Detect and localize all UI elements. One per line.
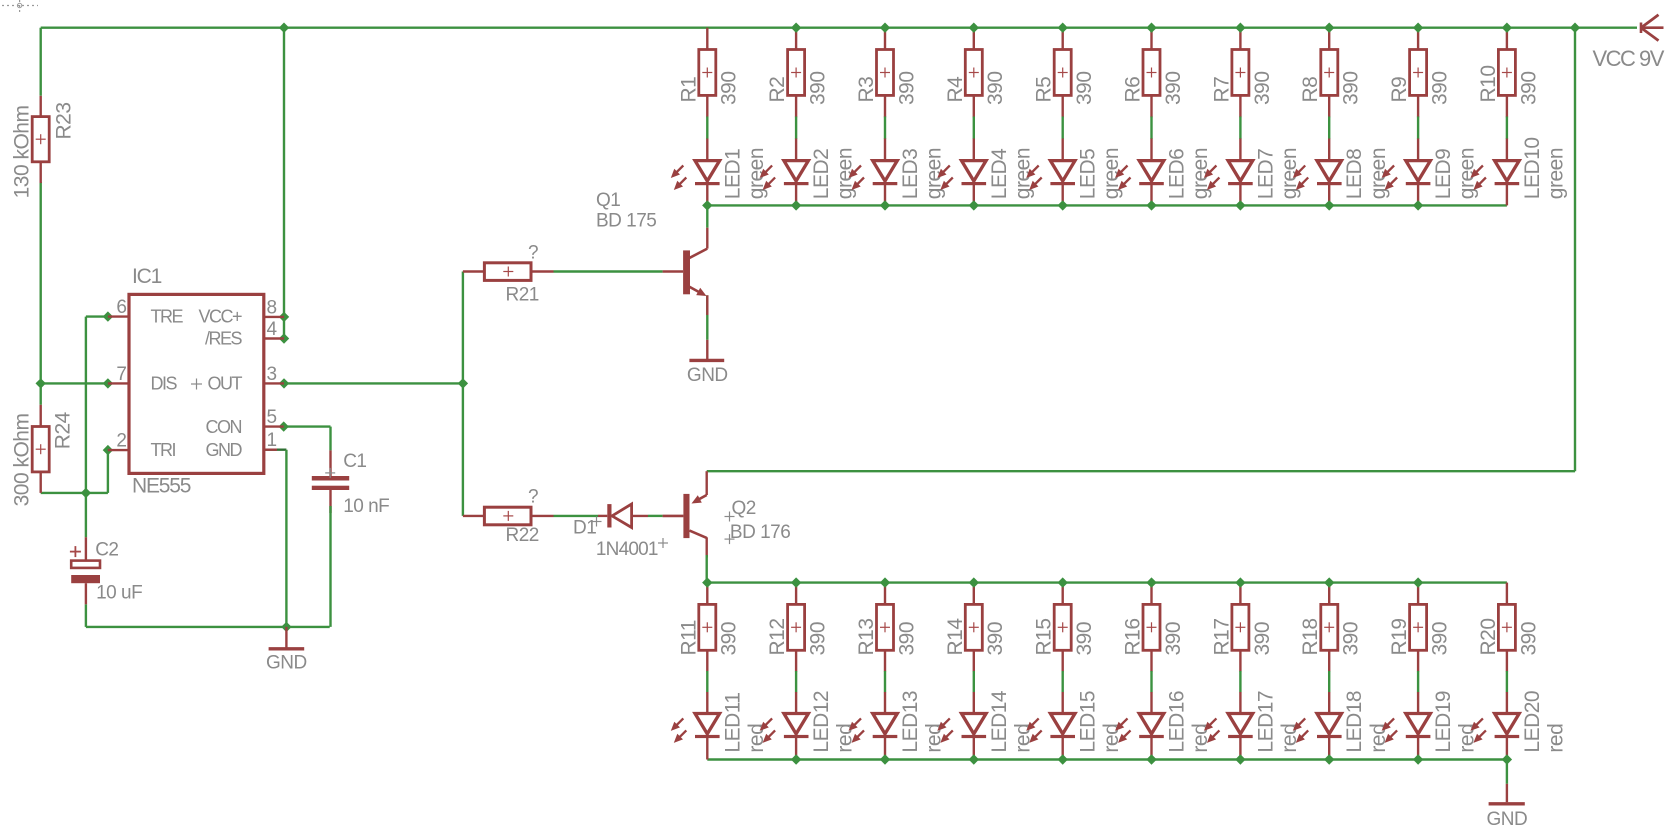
resistor R2	[766, 50, 829, 106]
svg-text:LED19: LED19	[1432, 691, 1455, 753]
junction	[1413, 200, 1423, 210]
svg-text:R21: R21	[506, 285, 539, 306]
LED LED18	[1293, 691, 1390, 753]
junction	[1058, 200, 1068, 210]
svg-text:CON: CON	[206, 417, 242, 437]
ground (LED bank)	[1487, 784, 1528, 830]
svg-text:Q2: Q2	[732, 498, 756, 519]
svg-text:390: 390	[1517, 622, 1540, 656]
resistor R11	[677, 604, 740, 655]
junction	[1058, 754, 1068, 764]
svg-text:R6: R6	[1122, 77, 1145, 103]
svg-text:390: 390	[1429, 622, 1452, 656]
junction	[880, 754, 890, 764]
svg-text:390: 390	[1162, 71, 1185, 105]
resistor R8	[1299, 50, 1363, 106]
svg-text:LED1: LED1	[721, 149, 744, 200]
svg-text:red: red	[1544, 724, 1567, 753]
ground (IC1)	[266, 627, 307, 674]
svg-text:?: ?	[528, 487, 538, 508]
resistor R7	[1210, 50, 1273, 106]
svg-text:390: 390	[1517, 71, 1540, 105]
resistor R5	[1033, 50, 1096, 106]
wire column R11 net	[706, 583, 708, 760]
svg-text:300 kOhm: 300 kOhm	[11, 414, 34, 507]
junction	[103, 378, 113, 388]
junction	[880, 23, 890, 33]
junction	[1146, 577, 1157, 587]
wire Q1 emitter to GND	[706, 295, 708, 340]
resistor R17	[1210, 604, 1273, 655]
svg-text:LED12: LED12	[810, 691, 833, 753]
wire R23 to DIS node	[40, 182, 42, 383]
junction	[791, 200, 802, 210]
svg-text:BD 175: BD 175	[596, 210, 656, 231]
junction	[969, 23, 979, 33]
LED LED15	[1026, 691, 1123, 753]
wire D1 to Q2 base	[648, 515, 663, 517]
wire column R19 net	[1417, 583, 1419, 760]
svg-text:390: 390	[1073, 71, 1096, 105]
svg-text:R24: R24	[51, 411, 74, 449]
wire DIS pin7 horizontal	[41, 382, 108, 384]
svg-text:LED13: LED13	[899, 691, 922, 753]
capacitor C1	[312, 450, 389, 517]
wire red bank bottom rail	[707, 758, 1507, 760]
junction	[702, 200, 712, 210]
junction	[969, 754, 979, 764]
junction	[1058, 577, 1068, 587]
svg-text:390: 390	[1251, 622, 1274, 656]
svg-text:R10: R10	[1477, 65, 1500, 102]
svg-text:390: 390	[1340, 622, 1363, 656]
junction	[1146, 23, 1157, 33]
wire R21 to Q1 base	[554, 270, 663, 272]
wire column R15 net	[1061, 583, 1063, 760]
LED LED5	[1026, 148, 1123, 199]
junction	[279, 421, 289, 431]
transistor Q1	[596, 190, 707, 315]
svg-text:GND: GND	[206, 440, 243, 460]
svg-text:390: 390	[895, 622, 918, 656]
wire C2 bottom	[85, 604, 87, 627]
svg-text:390: 390	[895, 71, 918, 105]
sheet origin marker	[2, 0, 38, 13]
junction	[969, 200, 979, 210]
svg-text:R18: R18	[1299, 618, 1322, 655]
junction	[1146, 200, 1157, 210]
resistor R23	[11, 96, 76, 199]
junction	[1324, 577, 1335, 587]
op-amp U1 / timer IC1 NE555	[108, 265, 284, 498]
ground (Q1)	[687, 340, 728, 386]
svg-text:390: 390	[984, 622, 1007, 656]
diode D1	[573, 504, 668, 560]
junction	[103, 445, 113, 455]
LED LED13	[849, 691, 946, 753]
wire R22 to D1	[554, 515, 599, 517]
svg-text:GND: GND	[1487, 809, 1528, 830]
svg-text:LED18: LED18	[1343, 691, 1366, 753]
wire TRE/TRI vertical	[85, 317, 87, 538]
svg-text:R4: R4	[944, 76, 967, 103]
junction	[1413, 23, 1423, 33]
wire red bank to GND	[1506, 760, 1508, 784]
svg-text:LED9: LED9	[1432, 149, 1455, 200]
svg-text:TRI: TRI	[151, 440, 176, 460]
svg-text:C1: C1	[343, 451, 366, 472]
wire red bank top rail	[707, 581, 1507, 583]
wire VCC drop to IC pins 8/4	[283, 28, 285, 339]
wire VCC feed to Q2 emitter	[707, 470, 1575, 472]
resistor R15	[1033, 604, 1096, 655]
svg-text:390: 390	[1162, 622, 1185, 656]
svg-text:1N4001: 1N4001	[596, 539, 658, 560]
svg-text:LED7: LED7	[1254, 149, 1277, 200]
resistor R24	[11, 405, 75, 507]
supply VCC 9V	[1593, 15, 1665, 71]
svg-text:390: 390	[1073, 622, 1096, 656]
svg-text:LED3: LED3	[899, 149, 922, 200]
svg-text:C2: C2	[95, 540, 118, 561]
resistor R3	[855, 50, 918, 106]
resistor R20	[1477, 604, 1540, 655]
LED LED12	[760, 691, 857, 753]
svg-text:LED11: LED11	[721, 692, 744, 752]
svg-text:OUT: OUT	[208, 373, 243, 393]
LED LED2	[760, 148, 857, 199]
wire left column upper (VCC to R23)	[40, 28, 42, 96]
svg-text:D1: D1	[573, 518, 596, 539]
svg-text:R17: R17	[1210, 618, 1233, 655]
svg-text:R7: R7	[1210, 77, 1233, 103]
wire column R3 net	[884, 28, 886, 206]
junction	[1235, 200, 1245, 210]
junction	[880, 200, 890, 210]
svg-text:6: 6	[116, 297, 126, 318]
svg-text:DIS: DIS	[151, 373, 178, 393]
svg-text:7: 7	[116, 364, 126, 385]
wire column R10 net	[1506, 28, 1508, 206]
svg-text:R13: R13	[855, 618, 878, 655]
LED LED1	[671, 148, 768, 199]
svg-text:LED14: LED14	[988, 690, 1011, 753]
svg-text:390: 390	[1251, 71, 1274, 105]
wire column R17 net	[1239, 583, 1241, 760]
LED LED10	[1470, 137, 1567, 199]
wire column R9 net	[1417, 28, 1419, 206]
svg-text:LED4: LED4	[988, 148, 1011, 199]
svg-text:R2: R2	[766, 77, 789, 103]
junction	[1413, 754, 1423, 764]
svg-text:green: green	[1544, 148, 1567, 199]
wire column R16 net	[1150, 583, 1152, 760]
junction	[969, 577, 979, 587]
svg-text:LED8: LED8	[1343, 149, 1366, 200]
wire R21/R22 branch vertical	[462, 272, 464, 516]
junction	[36, 378, 46, 388]
junction	[1324, 200, 1335, 210]
svg-text:Q1: Q1	[596, 190, 620, 211]
svg-text:R19: R19	[1388, 618, 1411, 655]
resistor R19	[1388, 604, 1451, 655]
svg-text:390: 390	[984, 71, 1007, 105]
wire TRE horizontal	[86, 315, 108, 317]
junction	[1502, 23, 1512, 33]
svg-text:GND: GND	[687, 365, 728, 386]
svg-text:390: 390	[718, 622, 741, 656]
wire TRI vertical	[107, 450, 109, 493]
svg-text:10 nF: 10 nF	[343, 496, 389, 517]
junction	[880, 577, 890, 587]
svg-text:R9: R9	[1388, 77, 1411, 103]
junction	[791, 23, 802, 33]
junction	[103, 311, 113, 321]
LED LED19	[1382, 691, 1479, 753]
wire DIS node to R24	[40, 383, 42, 404]
svg-text:8: 8	[267, 297, 277, 318]
junction	[1146, 754, 1157, 764]
svg-text:130 kOhm: 130 kOhm	[11, 106, 34, 199]
junction	[791, 754, 802, 764]
svg-text:390: 390	[1340, 71, 1363, 105]
resistor R13	[855, 604, 918, 655]
LED LED17	[1204, 691, 1301, 753]
wire C1 bottom	[329, 490, 331, 627]
svg-text:2: 2	[116, 431, 126, 452]
wire column R20 net	[1506, 583, 1508, 760]
wire R24 bottom stub	[40, 472, 42, 493]
svg-text:1: 1	[267, 430, 277, 451]
wire OUT pin3	[284, 382, 463, 384]
junction	[279, 312, 289, 322]
svg-text:R23: R23	[52, 102, 75, 139]
svg-text:3: 3	[267, 364, 277, 385]
svg-text:R5: R5	[1033, 77, 1056, 103]
resistor R14	[944, 604, 1007, 655]
junction	[1570, 23, 1580, 33]
svg-text:5: 5	[267, 407, 277, 428]
junction	[1235, 23, 1245, 33]
wire column R6 net	[1150, 28, 1152, 206]
wire top bank anode rail	[707, 204, 1507, 206]
svg-text:NE555: NE555	[132, 475, 191, 498]
svg-text:R20: R20	[1477, 618, 1500, 655]
svg-text:390: 390	[718, 71, 741, 105]
svg-text:LED6: LED6	[1166, 149, 1189, 200]
wire column R5 net	[1061, 28, 1063, 206]
svg-text:R8: R8	[1299, 77, 1322, 103]
svg-text:LED16: LED16	[1166, 691, 1189, 753]
resistor R9	[1388, 50, 1451, 106]
wire Q2 collector to red bank	[706, 537, 708, 582]
junction	[1235, 754, 1245, 764]
svg-text:390: 390	[1429, 71, 1452, 105]
svg-text:LED17: LED17	[1254, 691, 1277, 753]
LED LED16	[1115, 691, 1212, 753]
svg-text:4: 4	[267, 319, 278, 340]
resistor R21	[463, 243, 554, 306]
svg-text:R15: R15	[1033, 618, 1056, 655]
svg-text:LED2: LED2	[810, 149, 833, 200]
LED LED8	[1293, 148, 1390, 199]
svg-text:R14: R14	[944, 618, 967, 656]
wire column R14 net	[973, 583, 975, 760]
wire TRI horizontal (R24 bottom)	[41, 492, 108, 494]
svg-text:TRE: TRE	[151, 307, 184, 327]
junction	[1324, 754, 1335, 764]
LED LED6	[1115, 148, 1212, 199]
wire GND pin1 horizontal	[264, 449, 287, 451]
junction	[281, 622, 291, 632]
svg-text:R3: R3	[855, 77, 878, 103]
capacitor C2	[70, 537, 142, 604]
wire VCC right drop	[1574, 28, 1576, 472]
junction	[1324, 23, 1335, 33]
LED LED9	[1382, 148, 1479, 199]
resistor R10	[1477, 50, 1540, 106]
resistor R18	[1299, 604, 1363, 655]
svg-text:GND: GND	[266, 653, 307, 674]
svg-text:R22: R22	[506, 525, 539, 546]
wire column R1 net	[706, 28, 708, 206]
resistor R12	[766, 604, 829, 655]
wire column R2 net	[795, 28, 797, 206]
svg-text:LED10: LED10	[1521, 137, 1544, 199]
resistor R4	[944, 50, 1007, 106]
resistor R6	[1122, 50, 1186, 106]
resistor R1	[677, 50, 740, 106]
LED LED11	[671, 692, 768, 752]
junction	[279, 378, 289, 388]
svg-text:VCC+: VCC+	[198, 307, 242, 327]
junction	[1413, 577, 1423, 587]
junction	[1502, 754, 1512, 764]
LED LED20	[1470, 691, 1567, 753]
svg-text:?: ?	[528, 243, 538, 264]
wire GND horizontal bottom-left	[86, 626, 330, 628]
junction	[279, 23, 289, 33]
junction	[1058, 23, 1068, 33]
LED LED4	[937, 148, 1034, 199]
junction	[1235, 577, 1245, 587]
junction	[279, 333, 289, 343]
junction	[791, 577, 802, 587]
transistor Q2	[663, 471, 791, 544]
wire Q1 collector to LED rail	[706, 205, 708, 227]
wire column R4 net	[973, 28, 975, 206]
wire column R12 net	[795, 583, 797, 760]
junction	[702, 577, 712, 587]
svg-text:VCC 9V: VCC 9V	[1593, 46, 1665, 71]
wire column R18 net	[1328, 583, 1330, 760]
wire CON pin5 to C1	[284, 427, 331, 451]
LED LED7	[1204, 148, 1301, 199]
svg-text:390: 390	[807, 71, 830, 105]
svg-text:IC1: IC1	[132, 265, 162, 288]
resistor R22	[463, 487, 554, 547]
svg-text:R11: R11	[677, 620, 700, 655]
LED LED3	[849, 148, 946, 199]
svg-text:390: 390	[807, 622, 830, 656]
svg-text:R12: R12	[766, 618, 789, 655]
wire column R7 net	[1239, 28, 1241, 206]
svg-text:10 uF: 10 uF	[96, 583, 142, 604]
LED LED14	[937, 690, 1034, 753]
wire GND pin1 vertical	[285, 450, 287, 627]
svg-text:R1: R1	[677, 77, 700, 103]
svg-text:/RES: /RES	[205, 329, 243, 349]
svg-text:LED20: LED20	[1521, 691, 1544, 753]
resistor R16	[1122, 604, 1186, 655]
wire column R8 net	[1328, 28, 1330, 206]
svg-text:R16: R16	[1122, 618, 1145, 655]
junction	[458, 378, 468, 388]
svg-text:LED15: LED15	[1077, 691, 1100, 753]
junction	[81, 488, 91, 498]
wire VCC rail	[41, 27, 1637, 29]
svg-text:LED5: LED5	[1077, 149, 1100, 200]
wire column R13 net	[884, 583, 886, 760]
svg-text:BD 176: BD 176	[730, 522, 790, 543]
